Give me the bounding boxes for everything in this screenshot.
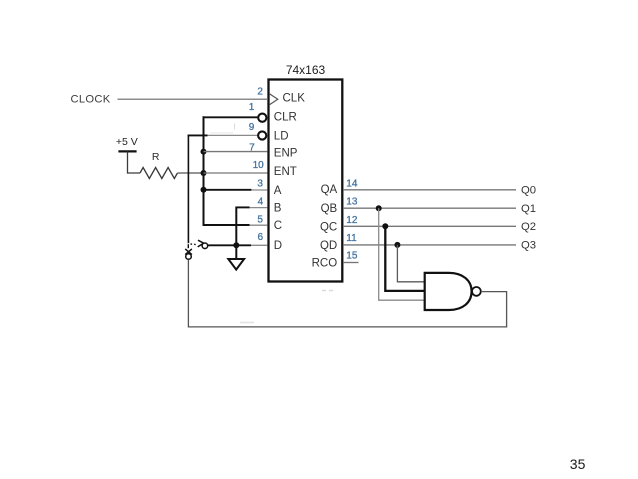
- svg-text:QA: QA: [321, 184, 338, 196]
- wire QB to Q1: [343, 207, 516, 209]
- svg-text:QD: QD: [320, 240, 337, 252]
- wire ENT pin stub: [204, 172, 268, 174]
- wire QC to Q2: [343, 225, 516, 227]
- svg-text:D: D: [274, 240, 282, 252]
- svg-text:3: 3: [257, 179, 263, 190]
- junction dot QB: [376, 205, 382, 211]
- wire CLR row to bubble: [203, 116, 258, 118]
- svg-text:6: 6: [258, 232, 264, 243]
- faint erased artifact near LD row: [210, 124, 235, 134]
- svg-text:R: R: [152, 151, 160, 163]
- svg-text:A: A: [274, 185, 282, 197]
- svg-text:ENP: ENP: [274, 148, 298, 160]
- junction dot A: [201, 187, 207, 193]
- wire D row black segment: [208, 244, 251, 246]
- switch throw contact circle: [202, 243, 208, 249]
- wire B pin gray stub: [250, 207, 268, 209]
- wire QD to Q3: [343, 244, 516, 246]
- svg-text:QB: QB: [321, 203, 338, 215]
- junction dot ENP: [201, 149, 207, 155]
- faint erased artifact above bottom wire: [240, 322, 254, 324]
- wire +5V bar down to resistor: [128, 151, 141, 173]
- wire CLOCK to CLK pin: [118, 98, 269, 100]
- svg-text:Q0: Q0: [521, 184, 536, 196]
- CLK edge-trigger triangle: [270, 94, 278, 105]
- power rail bar: [118, 150, 136, 152]
- junction dot ENT: [201, 170, 207, 176]
- svg-text:CLR: CLR: [274, 112, 297, 124]
- svg-text:Q2: Q2: [521, 221, 536, 233]
- wire QB junction to NAND bottom input: [379, 208, 425, 300]
- wire C pin gray stub: [250, 224, 268, 226]
- faint erased artifact below chip: [322, 290, 334, 292]
- svg-text:13: 13: [346, 197, 358, 208]
- svg-text:CLOCK: CLOCK: [71, 94, 111, 106]
- resistor R zigzag: [140, 168, 177, 179]
- junction dot QC: [382, 223, 388, 229]
- LD inversion bubble: [258, 131, 266, 139]
- NAND gate U2 body: [425, 273, 472, 310]
- svg-text:B: B: [274, 202, 282, 214]
- CLR inversion bubble: [258, 114, 266, 122]
- ground symbol: [228, 259, 244, 270]
- switch motion dotted arc: [188, 244, 196, 248]
- wire A row black segment: [204, 189, 252, 191]
- switch lever X mark: [185, 249, 192, 255]
- wire D pin gray stub: [251, 244, 268, 246]
- svg-text:CLK: CLK: [283, 93, 306, 105]
- NAND output bubble: [472, 287, 481, 296]
- wire LD vertical (feedback riser): [187, 135, 189, 243]
- svg-text:Q1: Q1: [521, 203, 536, 215]
- svg-text:RCO: RCO: [312, 258, 338, 270]
- svg-text:QC: QC: [320, 221, 337, 233]
- switch SW pole contact circle: [186, 254, 192, 260]
- junction dot D: [233, 242, 239, 248]
- svg-text:5: 5: [257, 215, 263, 226]
- svg-text:35: 35: [570, 456, 586, 472]
- switch motion arrowhead: [198, 240, 204, 247]
- bus vertical CLR/ENP/ENT/A/C: [203, 116, 205, 225]
- svg-text:10: 10: [253, 160, 265, 171]
- IC U1 74x163 body: [269, 80, 343, 282]
- svg-text:9: 9: [249, 122, 255, 133]
- svg-text:15: 15: [346, 251, 358, 262]
- wire LD row black segment: [188, 134, 208, 136]
- wire B row black segment: [236, 206, 249, 208]
- svg-text:LD: LD: [274, 130, 289, 142]
- wire QC junction to NAND middle input: [385, 226, 424, 291]
- svg-text:2: 2: [257, 87, 263, 98]
- svg-text:C: C: [274, 220, 282, 232]
- svg-text:Q3: Q3: [521, 240, 536, 252]
- wire A pin gray stub: [251, 189, 267, 191]
- svg-text:74x163: 74x163: [286, 63, 326, 77]
- svg-text:12: 12: [346, 215, 358, 226]
- wire LD row gray segment to bubble: [208, 134, 258, 136]
- svg-text:14: 14: [346, 178, 358, 189]
- svg-text:1: 1: [249, 102, 255, 113]
- wire NAND output feedback loop to switch: [188, 260, 506, 327]
- wire QA to Q0: [343, 189, 516, 191]
- wire resistor to ENT bus: [178, 172, 204, 174]
- svg-text:11: 11: [346, 233, 357, 244]
- wire ENP pin stub: [204, 151, 268, 153]
- wire RCO stub pin 15: [343, 262, 359, 264]
- bus vertical B-C-D to ground: [235, 207, 237, 260]
- svg-text:4: 4: [258, 197, 264, 208]
- junction dot QD: [394, 242, 400, 248]
- svg-text:ENT: ENT: [274, 166, 297, 178]
- svg-text:+5 V: +5 V: [116, 136, 138, 148]
- wire QD junction to NAND top input: [397, 245, 424, 282]
- wire C row black segment: [203, 224, 250, 226]
